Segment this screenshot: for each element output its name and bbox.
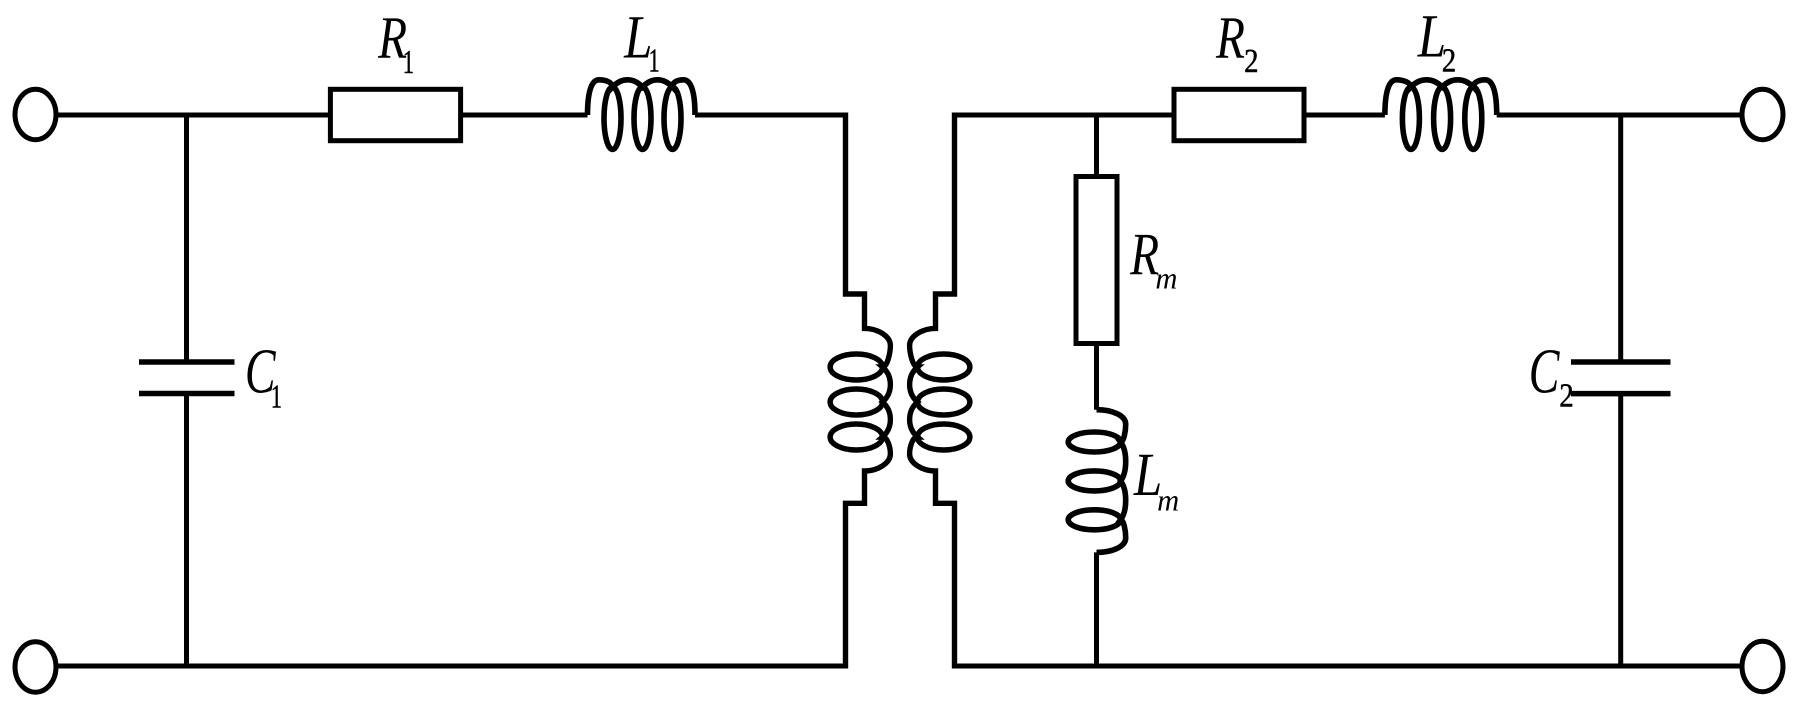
terminal output bottom xyxy=(1742,641,1783,691)
svg-text:m: m xyxy=(1155,261,1177,295)
label C2 xyxy=(1529,337,1574,415)
inductor Lm xyxy=(1068,410,1125,553)
svg-text:2: 2 xyxy=(1442,41,1456,79)
terminal input top xyxy=(15,89,56,139)
capacitor C2 xyxy=(1571,362,1671,394)
wire Lm bottom xyxy=(1094,552,1099,668)
label Lm xyxy=(1133,442,1179,518)
svg-text:1: 1 xyxy=(403,43,414,81)
capacitor C1 xyxy=(139,362,235,394)
resistor R1 xyxy=(330,89,460,140)
wire C2 top xyxy=(1618,113,1623,363)
wire C2 bottom xyxy=(1618,394,1623,668)
svg-text:C: C xyxy=(1529,337,1561,407)
wire input top to R1 xyxy=(58,113,331,118)
transformer primary winding xyxy=(830,113,890,669)
wire L1 to primary xyxy=(695,113,846,118)
label Rm xyxy=(1129,221,1177,296)
inductor L1 xyxy=(588,80,696,150)
resistor R2 xyxy=(1174,89,1304,140)
wire R1 to L1 xyxy=(461,113,588,118)
wire C1 top xyxy=(184,113,189,363)
svg-text:R: R xyxy=(1215,5,1245,72)
wire Rm to Lm xyxy=(1094,344,1099,410)
svg-text:1: 1 xyxy=(649,42,660,80)
wire secondary to output bottom xyxy=(952,664,1741,669)
wire input bottom to primary xyxy=(58,664,849,669)
wire C1 bottom xyxy=(184,394,189,669)
terminal input bottom xyxy=(15,642,56,692)
resistor Rm xyxy=(1076,177,1117,344)
label L2 xyxy=(1417,3,1456,79)
svg-text:2: 2 xyxy=(1559,376,1573,414)
wire secondary to R2 xyxy=(955,113,1175,118)
inductor L2 xyxy=(1385,80,1497,150)
label L1 xyxy=(623,4,660,80)
wire R2 to L2 xyxy=(1304,113,1385,118)
label C1 xyxy=(245,337,282,416)
svg-text:1: 1 xyxy=(271,378,282,416)
svg-text:m: m xyxy=(1157,483,1179,517)
svg-text:2: 2 xyxy=(1244,42,1258,80)
wire L2 to output top xyxy=(1497,113,1741,118)
label R2 xyxy=(1215,5,1258,80)
terminal output top xyxy=(1742,89,1783,139)
label R1 xyxy=(377,5,414,82)
transformer secondary winding xyxy=(910,113,970,669)
wire Rm top xyxy=(1094,113,1099,177)
